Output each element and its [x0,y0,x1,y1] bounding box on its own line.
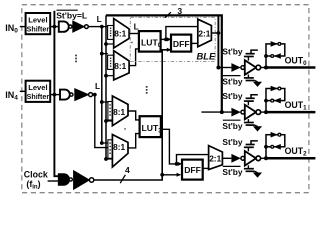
svg-text:DFF: DFF [173,39,190,49]
junction dot St'by rail x IN0 row [53,25,57,29]
feedback bus top with rails V1 V2 [106,15,222,112]
inverter G2 [73,21,89,32]
dot border remnant near LUT0 [131,42,133,44]
DFF1 D input arrowhead [167,37,171,41]
wire inverter G2 output to rail A [88,26,102,28]
junction dot output node OUT1 [264,110,268,114]
label St'by=L with overline [56,10,87,20]
junction dot L row2 [93,93,97,97]
keeper inverter forward (OUT2) [271,132,281,138]
junction dot rail B mux1 stub [104,42,108,46]
junction dot V2 to OUT1 driver [220,110,224,114]
mux M6 2:1 [209,146,223,170]
wire stub rail B to mux M3 [106,120,112,122]
svg-text:St'by=L: St'by=L [56,10,87,20]
BLE dashed box [130,17,215,61]
svg-text:St'by: St'by [222,91,242,101]
PMOS power-gate transistor Qa1 [244,50,258,61]
svg-text:L: L [95,81,100,91]
svg-text:8:1: 8:1 [113,142,125,152]
mux M1 8:1 [108,19,130,48]
wire mux M2 out to LUT0 [129,49,139,66]
wire branch to mux M6 top input [177,155,209,164]
mux M5 2:1 [198,19,212,47]
tri-state inverter (OUT0 driver) [245,60,261,75]
svg-text:BLE: BLE [197,51,216,62]
junction dot output node OUT2 [264,156,268,160]
DFF1 [171,35,191,52]
LUT0 [139,31,162,51]
wire DFF2 out to mux M6 [203,167,209,169]
svg-text:St'by: St'by [222,46,242,56]
junction dot keeper tap (OUT2) [264,145,268,149]
svg-text:St'by: St'by [222,76,242,86]
inverter small (OUT2 driver) [231,154,244,163]
tri-state inverter (OUT2 driver) [245,151,261,166]
svg-text:3: 3 [177,6,182,16]
svg-text:8:1: 8:1 [114,29,126,39]
wire LUT3 out elbow to DFF2 [161,129,181,164]
junction dot St'by rail x IN4 row [53,93,57,97]
wire rail C from row2 down to mux M4 [95,95,108,148]
svg-text:DFF: DFF [184,165,201,175]
wire tri-state out to node OUT2 [260,157,266,159]
junction dot bottom D branch [175,162,179,166]
wire stub to OUT1 driver [201,111,231,113]
clock slash 4 [120,175,125,183]
dot border remnant near LUT3 [124,128,126,130]
svg-text:4: 4 [125,165,130,175]
wire IN4 to level shifter [20,90,26,92]
keeper inverter backward (OUT2) [271,144,281,150]
junction dot output node OUT0 [264,66,268,70]
wire rail A vertical [101,27,103,143]
inverter G4 [75,89,93,101]
wire mux M5 out to rail V1 [211,32,218,34]
svg-text:8:1: 8:1 [114,61,126,71]
ground (OUT2 driver) [253,173,262,178]
NMOS power-gate transistor Qa2 [244,75,258,82]
keeper inverter forward (OUT0) [271,41,281,47]
DFF2 [182,160,203,180]
svg-text:St'by: St'by [222,121,242,131]
wire Clock to NAND G5 [48,180,59,182]
wire level shifter to NAND G1 [50,26,59,28]
keeper latch loop (OUT1) [266,89,285,113]
junction dot rail A mux3 stub [100,100,104,104]
svg-text:L: L [97,14,102,24]
label Clock (fin) [24,170,48,191]
wire OUT1 pad [266,111,315,114]
svg-text:Shifter: Shifter [27,92,50,101]
svg-text:2:1: 2:1 [198,28,210,38]
wire row1 stub into mux M1 [102,26,108,28]
junction dot L row1 [100,25,104,29]
ground (OUT0 driver) [253,82,262,87]
junction dot rail B mux4 stub [104,157,108,161]
svg-text:Shifter: Shifter [27,24,50,33]
wire inverter G4 output [93,94,95,96]
svg-text:St'by: St'by [222,167,242,177]
junction dot rail B mux3 stub [104,119,108,123]
PMOS power-gate transistor Qc1 [244,141,258,152]
bus slash 3 [165,12,171,17]
label St'by overline (NMOS gate, OUT1 driver) [222,120,242,131]
svg-text:St'by: St'by [222,137,242,147]
wire stub rail B to mux M2 [106,75,114,77]
junction dot V1 to OUT0 driver [216,66,220,70]
clock buffer G6 [74,171,94,189]
wire stub rail B to mux M1 [106,43,114,45]
wire mux M4 out to LUT3 [128,134,140,148]
ground (OUT1 driver) [253,126,262,131]
vertical dots between BLEs [146,86,148,94]
junction dot clock riser to DFF2 [160,173,164,177]
level shifter U1 [26,13,51,34]
wire stub rail A to mux M3 [102,101,108,103]
wire mux M1 out to LUT0 [129,33,139,35]
svg-text:L: L [134,21,139,31]
svg-text:Level: Level [28,83,47,92]
wire LUT0 bypass to mux M5 [166,27,198,40]
NMOS power-gate transistor Qb2 [244,119,258,126]
svg-text:2:1: 2:1 [209,154,221,164]
junction dot keeper tap (OUT1) [264,99,268,103]
junction dot rail A mux4 stub [100,141,104,145]
junction dot keeper tap (OUT0) [264,54,268,58]
wire stub rail B to mux M4 [106,158,112,160]
NMOS power-gate transistor Qc2 [244,165,258,172]
keeper inverter backward (OUT1) [271,98,281,104]
wire tri-state out to node OUT1 [260,111,266,113]
label St'by overline (NMOS gate, OUT2 driver) [222,166,242,177]
PMOS power-gate transistor Qb1 [244,95,258,106]
NAND gate G1 [59,21,72,31]
wire mux M3 out to LUT3 [128,111,140,120]
wire level shifter U2 to NAND G3 [50,94,60,96]
wire stub rail A to mux M2 [102,53,108,55]
outer logic-block dashed border [22,5,309,193]
wire DFF1 out to mux M5 [191,42,198,44]
wire stub rail A to mux M4 [102,142,108,144]
tri-state inverter (OUT1 driver) [245,105,261,120]
keeper latch loop (OUT0) [266,44,285,68]
wire St'by vertical rail to clock NAND [54,11,58,176]
wire OUT2 pad [266,157,315,160]
svg-text:8:1: 8:1 [113,107,125,117]
junction dot rail A mux2 stub [100,52,104,56]
junction dot rail B mux2 stub [104,74,108,78]
wire OUT0 pad [266,66,315,69]
svg-text:Level: Level [28,15,47,24]
DFF2 clock arrowhead [177,173,181,177]
keeper latch loop (OUT2) [266,135,285,159]
wire tri-state out to node OUT0 [260,67,266,69]
mux M2 8:1 [108,51,130,80]
wire clock distribution [94,50,170,180]
wire rail B vertical [105,15,107,159]
NAND gate G3 [60,90,73,100]
inverter small (OUT0 driver) [231,63,244,72]
keeper inverter backward (OUT0) [271,53,281,59]
wire mux M6 out to OUT2 driver [222,157,231,159]
wire V1 to OUT0 driver [218,67,231,69]
keeper inverter forward (OUT1) [271,86,281,92]
NAND gate G5 [59,174,73,185]
inverter small (OUT1 driver) [231,108,244,117]
level shifter U2 [26,81,51,102]
vertical dots between input rows [75,55,77,63]
wire clock to DFF2 [162,174,180,176]
junction dot mux M5 out on V1 [217,31,221,35]
LUT3 [140,116,163,137]
label St'by overline (NMOS gate, OUT0 driver) [222,76,242,87]
mux M3 8:1 [108,96,128,126]
DFF1 clock arrowhead [167,48,171,52]
junction dot LUT0 out [164,38,168,42]
wire LUT0 out to DFF1 with branch [161,38,171,40]
wire IN0 to level shifter [20,26,26,28]
DFF2 D input arrowhead [178,162,182,166]
mux M4 8:1 [108,135,128,168]
